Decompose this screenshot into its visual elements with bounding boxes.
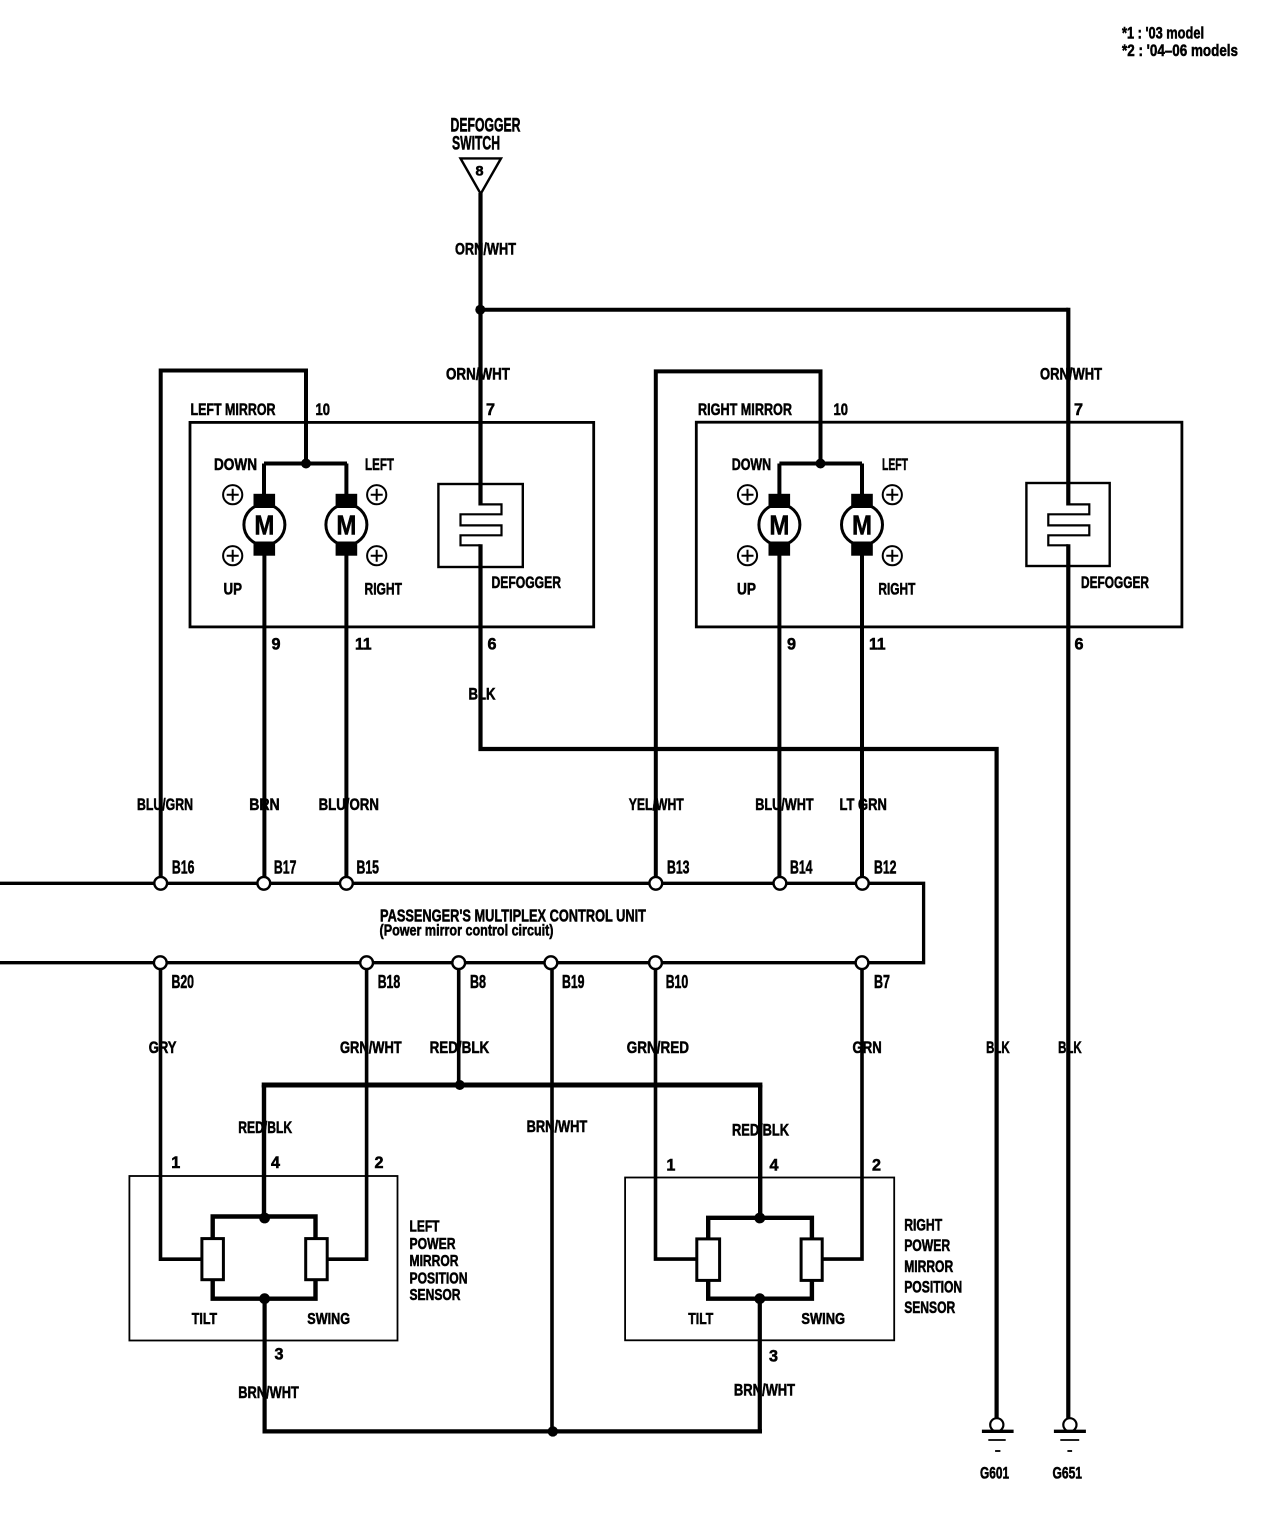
svg-text:MIRROR: MIRROR bbox=[410, 1253, 459, 1270]
svg-text:M: M bbox=[769, 510, 789, 541]
svg-text:B8: B8 bbox=[470, 972, 486, 992]
svg-text:ORN/WHT: ORN/WHT bbox=[455, 240, 516, 259]
svg-text:B12: B12 bbox=[874, 858, 897, 878]
svg-text:B7: B7 bbox=[874, 972, 890, 992]
svg-text:ORN/WHT: ORN/WHT bbox=[446, 365, 510, 384]
svg-text:POWER: POWER bbox=[410, 1236, 456, 1253]
svg-text:BRN: BRN bbox=[249, 795, 280, 814]
svg-text:RIGHT: RIGHT bbox=[904, 1217, 942, 1235]
svg-text:7: 7 bbox=[1074, 400, 1083, 419]
svg-text:BRN/WHT: BRN/WHT bbox=[734, 1381, 796, 1400]
svg-text:POSITION: POSITION bbox=[410, 1271, 468, 1288]
svg-text:LEFT: LEFT bbox=[365, 455, 394, 474]
svg-text:B14: B14 bbox=[790, 858, 813, 878]
svg-text:8: 8 bbox=[476, 164, 485, 179]
svg-text:9: 9 bbox=[272, 635, 281, 654]
svg-text:GRN/WHT: GRN/WHT bbox=[340, 1038, 402, 1057]
svg-text:9: 9 bbox=[787, 635, 796, 654]
svg-text:B17: B17 bbox=[274, 858, 297, 878]
svg-text:RED/BLK: RED/BLK bbox=[430, 1038, 490, 1057]
svg-text:SWITCH: SWITCH bbox=[452, 134, 500, 155]
svg-text:DOWN: DOWN bbox=[732, 455, 772, 474]
svg-text:YEL/WHT: YEL/WHT bbox=[629, 795, 685, 814]
svg-text:SENSOR: SENSOR bbox=[410, 1287, 461, 1304]
svg-text:POSITION: POSITION bbox=[904, 1278, 962, 1296]
svg-text:POWER: POWER bbox=[904, 1237, 950, 1255]
svg-text:BLK: BLK bbox=[986, 1038, 1010, 1057]
svg-text:RIGHT MIRROR: RIGHT MIRROR bbox=[698, 400, 792, 419]
svg-text:6: 6 bbox=[488, 635, 497, 654]
svg-text:6: 6 bbox=[1075, 635, 1084, 654]
svg-text:4: 4 bbox=[271, 1153, 281, 1172]
svg-text:G651: G651 bbox=[1053, 1464, 1083, 1483]
svg-text:SWING: SWING bbox=[307, 1311, 350, 1328]
svg-text:RED/BLK: RED/BLK bbox=[238, 1119, 292, 1137]
svg-text:7: 7 bbox=[486, 400, 495, 419]
svg-text:BLU/WHT: BLU/WHT bbox=[755, 795, 814, 814]
svg-text:1: 1 bbox=[171, 1153, 180, 1172]
svg-text:BLU/ORN: BLU/ORN bbox=[319, 795, 379, 814]
svg-text:11: 11 bbox=[869, 635, 886, 654]
svg-text:GRN: GRN bbox=[853, 1038, 882, 1057]
svg-text:1: 1 bbox=[666, 1156, 675, 1175]
svg-text:UP: UP bbox=[737, 580, 756, 599]
svg-text:4: 4 bbox=[770, 1156, 780, 1175]
svg-text:M: M bbox=[336, 510, 356, 541]
svg-text:ORN/WHT: ORN/WHT bbox=[1040, 365, 1102, 384]
svg-text:B15: B15 bbox=[357, 858, 380, 878]
svg-text:BRN/WHT: BRN/WHT bbox=[238, 1383, 299, 1402]
svg-text:2: 2 bbox=[375, 1153, 384, 1172]
svg-text:BLK: BLK bbox=[1058, 1038, 1082, 1057]
svg-text:LEFT MIRROR: LEFT MIRROR bbox=[191, 400, 276, 419]
svg-text:DEFOGGER: DEFOGGER bbox=[1081, 573, 1149, 592]
svg-text:MIRROR: MIRROR bbox=[904, 1258, 953, 1276]
svg-text:B13: B13 bbox=[667, 858, 690, 878]
svg-text:2: 2 bbox=[872, 1156, 881, 1175]
svg-text:M: M bbox=[852, 510, 872, 541]
svg-text:LEFT: LEFT bbox=[882, 455, 908, 474]
svg-text:BRN/WHT: BRN/WHT bbox=[527, 1118, 588, 1136]
svg-text:TILT: TILT bbox=[192, 1311, 218, 1328]
svg-text:10: 10 bbox=[316, 400, 331, 419]
svg-text:B10: B10 bbox=[666, 972, 689, 992]
svg-text:GRN/RED: GRN/RED bbox=[627, 1038, 689, 1057]
svg-text:LT GRN: LT GRN bbox=[840, 795, 887, 814]
svg-text:BLK: BLK bbox=[469, 685, 497, 704]
svg-text:*2 : '04–06 models: *2 : '04–06 models bbox=[1122, 41, 1238, 60]
svg-text:SENSOR: SENSOR bbox=[904, 1299, 955, 1317]
svg-text:BLU/GRN: BLU/GRN bbox=[137, 795, 193, 814]
svg-text:B19: B19 bbox=[562, 972, 585, 992]
svg-text:B20: B20 bbox=[172, 972, 195, 992]
svg-text:B16: B16 bbox=[172, 858, 195, 878]
svg-text:3: 3 bbox=[275, 1345, 284, 1364]
svg-text:DOWN: DOWN bbox=[214, 455, 257, 474]
svg-text:11: 11 bbox=[355, 635, 372, 654]
svg-text:LEFT: LEFT bbox=[410, 1218, 440, 1235]
svg-text:RED/BLK: RED/BLK bbox=[732, 1122, 789, 1140]
svg-text:RIGHT: RIGHT bbox=[878, 580, 915, 599]
svg-text:TILT: TILT bbox=[688, 1311, 713, 1328]
svg-text:B18: B18 bbox=[378, 972, 401, 992]
svg-text:UP: UP bbox=[224, 580, 243, 599]
svg-text:(Power mirror control circuit): (Power mirror control circuit) bbox=[380, 923, 554, 940]
svg-text:G601: G601 bbox=[980, 1464, 1009, 1483]
svg-text:SWING: SWING bbox=[801, 1311, 845, 1328]
svg-text:GRY: GRY bbox=[149, 1038, 177, 1057]
svg-text:M: M bbox=[254, 510, 274, 541]
svg-text:*1 : '03 model: *1 : '03 model bbox=[1122, 24, 1204, 43]
svg-text:DEFOGGER: DEFOGGER bbox=[492, 573, 562, 592]
svg-text:RIGHT: RIGHT bbox=[365, 580, 403, 599]
svg-text:10: 10 bbox=[834, 400, 849, 419]
svg-text:3: 3 bbox=[769, 1347, 778, 1366]
